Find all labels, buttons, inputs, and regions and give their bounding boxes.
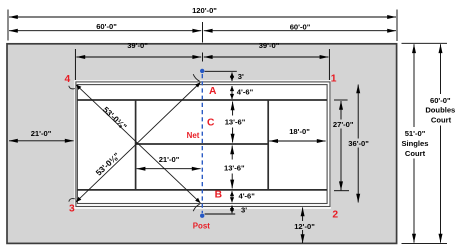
svg-text:C: C — [207, 118, 215, 129]
svg-text:Net: Net — [187, 131, 200, 140]
dim 51'-0" singles court line — [413, 44, 415, 127]
svg-text:Doubles: Doubles — [425, 106, 455, 115]
dim 36'-0" — [357, 85, 359, 139]
diagonal 3 to A — [76, 83, 200, 202]
singles sideline bottom — [77, 189, 327, 191]
arc hook at point B — [193, 204, 199, 211]
dim 60'-0" doubles court line — [440, 44, 442, 94]
arc hook at corner 3 — [69, 199, 75, 202]
svg-text:1: 1 — [331, 74, 337, 85]
extension line court-right above — [328, 49, 330, 80]
svg-text:13'-6": 13'-6" — [225, 118, 246, 127]
svg-text:39'-0": 39'-0" — [127, 41, 148, 50]
surrounding play area 120x60 — [7, 44, 397, 244]
dim 4'-6" bottom — [231, 191, 233, 202]
dim 13'-6" top — [232, 102, 234, 116]
svg-text:120'-0": 120'-0" — [192, 6, 217, 15]
dim 27'-0" — [340, 101, 342, 120]
extension line center top — [202, 22, 204, 43]
dim 21'-0" inside court — [137, 168, 201, 170]
svg-text:13'-6": 13'-6" — [224, 164, 245, 173]
svg-text:4: 4 — [65, 74, 71, 85]
court white pad — [74, 80, 331, 209]
right extension line top — [402, 42, 448, 44]
arc hook at point A — [193, 74, 199, 81]
svg-text:51'-0": 51'-0" — [405, 129, 426, 138]
27' T-bar bottom — [334, 190, 349, 192]
post extension line bottom — [205, 213, 236, 215]
dim 60'-0" right — [204, 30, 396, 32]
svg-text:Court: Court — [405, 149, 426, 158]
service line left — [135, 100, 137, 191]
center tick at 39' level — [202, 53, 204, 62]
doubles court outer boundary — [76, 82, 330, 207]
dim 4'-6" top — [231, 86, 233, 99]
svg-text:36'-0": 36'-0" — [348, 139, 369, 148]
svg-text:21'-0": 21'-0" — [159, 155, 180, 164]
svg-text:18'-0": 18'-0" — [289, 127, 310, 136]
right extension line bottom — [402, 243, 448, 245]
dim 18'-0" — [269, 140, 325, 142]
svg-text:60'-0": 60'-0" — [96, 22, 117, 31]
diagonal 4 to B — [76, 85, 200, 203]
dim 13'-6" bottom — [231, 146, 233, 160]
svg-text:3: 3 — [69, 204, 75, 215]
post extension line top — [205, 70, 237, 72]
svg-text:60'-0": 60'-0" — [430, 96, 451, 105]
svg-text:3': 3' — [238, 72, 244, 81]
extension line right x397 — [396, 10, 398, 42]
center service line — [136, 143, 269, 145]
svg-text:12'-0": 12'-0" — [294, 222, 315, 231]
dim 120'-0" — [9, 16, 396, 18]
svg-text:A: A — [209, 86, 217, 97]
svg-text:4'-6": 4'-6" — [239, 191, 256, 200]
net post dot bottom — [200, 214, 204, 218]
svg-text:27'-0": 27'-0" — [333, 120, 354, 129]
dim 3' top — [231, 73, 233, 82]
singles sideline top — [77, 99, 327, 101]
dim 21'-0" left outside — [9, 140, 74, 142]
svg-text:60'-0": 60'-0" — [290, 22, 311, 31]
dim 39'-0" right — [204, 56, 329, 58]
svg-text:Singles: Singles — [401, 139, 428, 148]
svg-text:Court: Court — [431, 116, 452, 125]
service line right — [267, 100, 269, 191]
extension line court-left above — [74, 49, 76, 80]
svg-text:Post: Post — [193, 221, 210, 230]
net dashed line — [201, 74, 203, 213]
27' T-bar top — [334, 99, 348, 101]
dim 3' bottom — [231, 206, 233, 214]
svg-text:39'-0": 39'-0" — [259, 41, 280, 50]
svg-text:3': 3' — [241, 205, 247, 214]
doubles court inner boundary — [77, 85, 327, 204]
dim 60'-0" left — [9, 30, 201, 32]
arc hook at corner 4 — [69, 86, 75, 89]
dim 39'-0" left — [76, 56, 201, 58]
svg-text:21'-0": 21'-0" — [31, 129, 52, 138]
dim 12'-0" bottom — [302, 207, 304, 221]
svg-text:2: 2 — [332, 209, 338, 220]
net post dot top — [200, 69, 204, 73]
svg-text:B: B — [215, 190, 222, 201]
extension line left x8 — [7, 10, 9, 41]
svg-text:4'-6": 4'-6" — [237, 87, 254, 96]
